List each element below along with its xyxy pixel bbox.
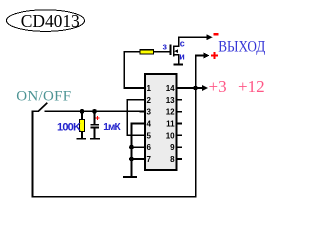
svg-text:9: 9 bbox=[170, 143, 175, 152]
label plus polarity C1 bbox=[96, 116, 100, 120]
svg-text:ВЫХОД: ВЫХОД bbox=[218, 39, 265, 56]
label minus output bbox=[213, 33, 218, 35]
node junction pin7 bbox=[129, 157, 134, 162]
transistor Q1 MOSFET bbox=[170, 36, 180, 64]
pin stubs right 14-8 bbox=[177, 87, 183, 160]
wire: bottom frame horizontal bbox=[32, 196, 197, 198]
svg-text:и: и bbox=[179, 52, 185, 62]
pin stubs left 1-7 bbox=[140, 87, 146, 160]
ground bar below IC (pins 4,6,7 net) bbox=[123, 176, 137, 178]
svg-text:6: 6 bbox=[147, 143, 152, 152]
ground bar at R1 bottom bbox=[76, 138, 86, 140]
node junction at R1 top bbox=[80, 109, 85, 114]
wire: left frame vertical from switch down bbox=[32, 111, 34, 198]
svg-text:4: 4 bbox=[147, 120, 152, 129]
wire plus output arrow from right frame bbox=[195, 53, 210, 59]
svg-text:2: 2 bbox=[147, 96, 152, 105]
svg-text:1мК: 1мК bbox=[103, 122, 121, 133]
svg-text:ON/OFF: ON/OFF bbox=[16, 89, 71, 105]
node junction at C1 top bbox=[92, 109, 97, 114]
ground bar at C1 bottom bbox=[90, 138, 100, 140]
svg-text:10: 10 bbox=[166, 131, 175, 140]
IC U1 CD4013 title ellipse bbox=[7, 10, 85, 32]
svg-text:CD4013: CD4013 bbox=[21, 11, 80, 31]
ground bar at Q1 source bbox=[173, 64, 183, 66]
svg-text:+12: +12 bbox=[238, 77, 265, 96]
svg-text:с: с bbox=[180, 39, 185, 49]
svg-text:1: 1 bbox=[147, 84, 152, 93]
svg-text:8: 8 bbox=[170, 155, 175, 164]
svg-text:14: 14 bbox=[166, 84, 175, 93]
switch S1 ON/OFF bbox=[32, 103, 47, 112]
capacitor C1 1mK electrolytic bbox=[90, 111, 99, 138]
svg-text:7: 7 bbox=[147, 155, 152, 164]
label plus output bbox=[211, 52, 218, 59]
wire R2 to gate bbox=[154, 51, 170, 53]
svg-text:3: 3 bbox=[147, 108, 152, 117]
svg-text:11: 11 bbox=[166, 120, 175, 129]
wire pin1 to gate resistor (up-left route) bbox=[123, 51, 140, 89]
wire: right frame vertical up to output plus arrow bbox=[195, 55, 197, 197]
wire drain to minus output arrow bbox=[178, 34, 213, 40]
svg-text:5: 5 bbox=[147, 131, 152, 140]
svg-text:12: 12 bbox=[166, 108, 175, 117]
resistor R2 gate (horizontal) bbox=[140, 50, 154, 54]
wire pin4 to ground (V2) bbox=[131, 123, 145, 177]
resistor R1 100K (vertical) bbox=[80, 111, 85, 139]
svg-text:100K: 100K bbox=[57, 122, 81, 134]
wire pin2 to pin5 (V1) bbox=[126, 99, 145, 136]
wire pin14 to supply arrow bbox=[182, 85, 208, 91]
svg-text:+3: +3 bbox=[209, 77, 227, 96]
svg-text:13: 13 bbox=[166, 96, 175, 105]
IC U1 CD4013 body bbox=[145, 74, 177, 170]
node junction pin14 / right frame bbox=[193, 86, 198, 91]
wire: switch to pin 3 horizontal bbox=[45, 111, 146, 113]
node junction pin6 bbox=[129, 145, 134, 150]
svg-text:з: з bbox=[163, 42, 168, 52]
